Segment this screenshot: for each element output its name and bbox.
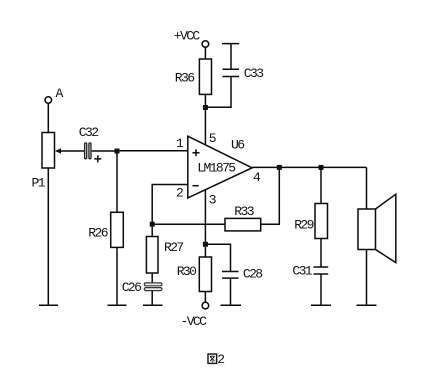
wire C28 to ground bar (230, 278, 232, 305)
svg-text:C31: C31 (292, 264, 312, 279)
svg-text:U6: U6 (231, 137, 244, 152)
wire speaker to ground bar (366, 250, 368, 306)
wire output to speaker (366, 167, 368, 209)
wire J2 down to op-amp pin 5 (204, 110, 206, 145)
svg-text:R33: R33 (234, 204, 253, 219)
wire J4 to R30 (204, 247, 206, 257)
wire R26 to ground bar (116, 247, 118, 305)
resistor R27 (146, 237, 183, 274)
wire J3 to R33 (152, 223, 225, 225)
svg-text:2: 2 (217, 352, 224, 367)
resistor R26 (88, 212, 123, 247)
ground bar under C28 (221, 304, 242, 306)
wire C31 to ground bar (320, 274, 322, 305)
op-amp U6 LM1875 (176, 131, 261, 207)
wire J2 to C33 (205, 77, 231, 108)
wire R29 to C31 (320, 239, 322, 268)
svg-text:R30: R30 (177, 264, 196, 279)
svg-text:C28: C28 (243, 266, 262, 281)
potentiometer P1 (32, 133, 62, 191)
svg-text:R29: R29 (294, 218, 313, 233)
node J2 junction (203, 105, 208, 110)
wire R36 to node J2 (204, 94, 206, 107)
capacitor C31 (292, 264, 328, 279)
node A terminal (45, 86, 64, 103)
svg-text:R36: R36 (175, 71, 194, 86)
wire op-amp pin 2 (152, 185, 188, 225)
wire J4 to C28 (205, 244, 230, 271)
ground bar under C31 (311, 304, 331, 306)
terminal bar above C33 (222, 43, 239, 45)
ground bar under P1 (39, 304, 58, 306)
svg-text:5: 5 (209, 131, 216, 146)
wire R33 to output node (261, 167, 280, 224)
+VCC terminal (174, 29, 209, 48)
resistor R30 (177, 257, 212, 292)
capacitor C28 (222, 266, 262, 281)
capacitor C32 (79, 125, 102, 162)
wire J1 down to R26 (116, 151, 118, 212)
wire arrow to C32 (59, 150, 84, 152)
svg-text:2: 2 (176, 186, 183, 201)
wire C26 to ground bar (151, 291, 153, 306)
svg-text:C32: C32 (79, 125, 98, 140)
svg-text:R27: R27 (164, 240, 183, 255)
caption 图2 (208, 352, 224, 367)
wire +VCC to R36 (204, 47, 206, 59)
svg-text:3: 3 (209, 192, 216, 207)
resistor R36 (175, 59, 212, 94)
svg-text:C26: C26 (122, 280, 141, 295)
wire R30 to -VCC terminal (204, 292, 206, 303)
resistor R33 (225, 204, 261, 231)
wire C32 to node J1 (92, 150, 117, 152)
ground bar under R26 (108, 304, 127, 306)
capacitor C26 (122, 280, 162, 295)
node J1 junction (115, 149, 120, 154)
wire op-amp output (252, 166, 366, 168)
resistor R29 (294, 204, 327, 239)
svg-text:C33: C33 (244, 66, 263, 81)
wire C33 to top bar (230, 44, 232, 70)
svg-text:-VCC: -VCC (181, 314, 208, 329)
svg-text:+VCC: +VCC (174, 29, 201, 44)
wire op-amp pin 3 down (204, 190, 206, 245)
wire J6 to R29 (320, 167, 322, 203)
svg-text:R26: R26 (88, 226, 107, 241)
ground bar under speaker (357, 304, 377, 306)
wire J1 to op-amp pin 1 (117, 150, 188, 152)
node J6 junction (319, 165, 324, 170)
wire A to P1 (47, 103, 49, 132)
svg-text:LM1875: LM1875 (197, 161, 235, 176)
node J4 junction (203, 242, 208, 247)
wire J3 down to R27 (151, 227, 153, 237)
wire P1 to ground bar (47, 168, 49, 305)
node J3 junction (150, 222, 155, 227)
svg-text:P1: P1 (32, 175, 46, 190)
speaker (358, 194, 396, 262)
capacitor C33 (223, 66, 264, 81)
-VCC terminal (181, 302, 209, 329)
ground bar under C26 (143, 304, 163, 306)
node J5 junction (277, 165, 282, 170)
wire R27 to C26 (151, 273, 153, 283)
